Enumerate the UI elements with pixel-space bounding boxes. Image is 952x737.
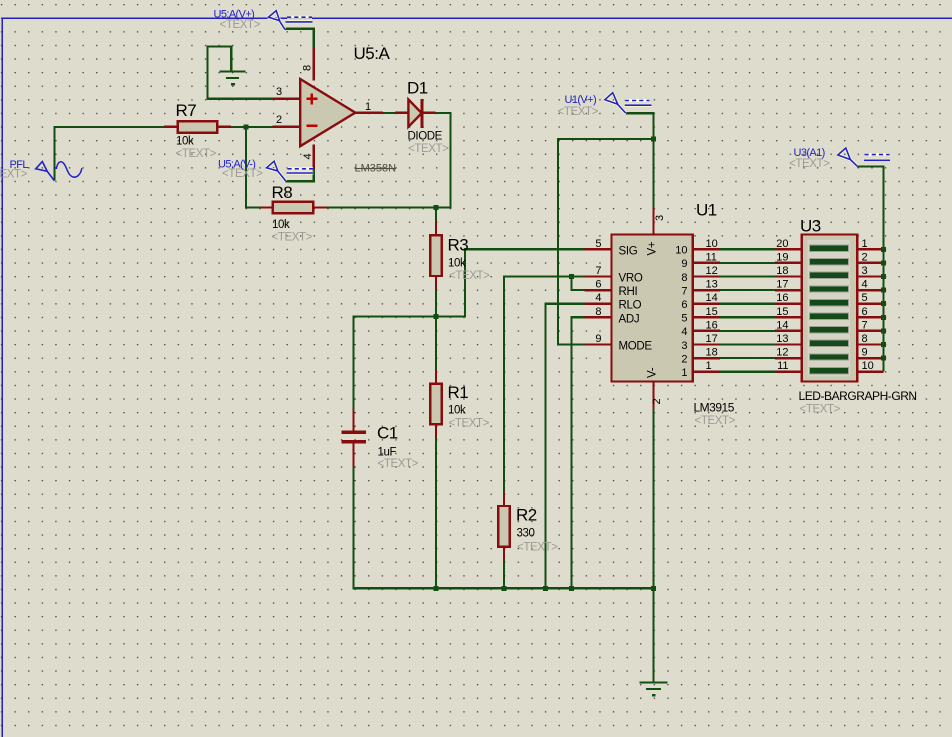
svg-text:<TEXT>: <TEXT>: [378, 458, 419, 470]
wire ground bus bottom: [352, 587, 654, 589]
svg-text:330: 330: [517, 528, 535, 540]
svg-text:10k: 10k: [272, 219, 290, 231]
label C1: [377, 424, 419, 471]
wire op-amp output to D1: [383, 112, 397, 114]
wire U1 pin2 (V-) down to ground: [652, 408, 654, 683]
svg-text:2: 2: [862, 251, 868, 263]
diode D1 triangle: [408, 100, 421, 127]
label U5:A: [354, 44, 397, 175]
wire PFL vertical to R7 row: [55, 126, 165, 181]
svg-text:9: 9: [681, 258, 687, 270]
pin stub U1 pin9 MODE: [584, 343, 612, 345]
wire VRO row to R2 top: [504, 277, 585, 493]
resistor R1: [430, 384, 441, 425]
svg-text:3: 3: [681, 340, 687, 352]
pin stub U1 pin6 RHI: [584, 289, 612, 291]
svg-text:15: 15: [776, 306, 788, 318]
svg-text:4: 4: [681, 326, 687, 338]
svg-text:DIODE: DIODE: [408, 131, 443, 143]
label R7: [176, 101, 217, 160]
junction RLO/ground bus: [543, 586, 548, 591]
svg-text:1uF: 1uF: [378, 447, 397, 459]
resistor R2: [498, 506, 509, 547]
svg-text:<TEXT>: <TEXT>: [408, 143, 449, 155]
wire RLO to ground bus: [546, 304, 585, 589]
svg-text:<TEXT>: <TEXT>: [176, 148, 217, 160]
pin stub R3 bottom: [435, 276, 437, 290]
wire U1 pin14 to U3 pin16 (row 5): [692, 303, 884, 305]
pin stub R1 bottom: [435, 425, 437, 439]
svg-text:1: 1: [365, 101, 371, 113]
input terminal PFL symbol: [36, 162, 82, 181]
wire U1 pin17 to U3 pin13 (row 8): [692, 343, 884, 345]
junction R3/R1/C1/SIG node: [434, 314, 439, 319]
wire U3 common anode bus: [857, 167, 884, 372]
power terminal U5:A(V-) symbol: [267, 161, 314, 181]
net label U5:A(V-): [218, 159, 263, 180]
pin stub C1 top: [352, 409, 354, 432]
svg-text:C1: C1: [377, 424, 398, 443]
svg-text:9: 9: [862, 347, 868, 359]
svg-text:5: 5: [595, 238, 601, 250]
pin stub U1 pin5 SIG: [584, 248, 612, 250]
svg-text:U1(V+): U1(V+): [565, 94, 597, 106]
resistor R3: [430, 235, 441, 276]
junction ground bus / U1 V-: [651, 586, 656, 591]
svg-text:3: 3: [862, 265, 868, 277]
label R2: [516, 506, 558, 554]
wire R8 right to node (436,207.5): [327, 206, 436, 208]
svg-text:8: 8: [302, 65, 314, 71]
U1 to U3 wires: maroon stubs + green middles: [692, 249, 884, 371]
IC U1 body: [612, 235, 693, 382]
svg-text:RLO: RLO: [619, 300, 642, 312]
label R3: [448, 236, 491, 283]
op-amp U5:A triangle: [300, 79, 355, 146]
svg-text:V-: V-: [647, 367, 659, 378]
power terminal U5:A(V+) symbol: [268, 11, 312, 30]
svg-text:2: 2: [651, 398, 663, 404]
junction dots on U3 anode bus: [881, 247, 886, 361]
svg-text:9: 9: [595, 333, 601, 345]
pin stub op-amp pin8: [313, 48, 315, 81]
pin stub R8 right: [313, 206, 327, 208]
svg-text:7: 7: [681, 285, 687, 297]
svg-text:SIG: SIG: [619, 245, 638, 257]
svg-text:U1: U1: [696, 201, 717, 220]
wire node down to R1 top: [435, 316, 437, 371]
pin stub op-amp output pin1: [354, 112, 383, 114]
op-amp plus sign: [306, 93, 317, 125]
svg-text:VRO: VRO: [619, 273, 643, 285]
capacitor C1 plates: [342, 431, 367, 444]
svg-text:<TEXT>: <TEXT>: [222, 168, 263, 180]
svg-text:3: 3: [654, 215, 666, 221]
svg-text:4: 4: [595, 292, 601, 304]
wire ADJ to ground bus: [572, 317, 585, 588]
junction ADJ/ground bus: [569, 586, 574, 591]
svg-text:MODE: MODE: [619, 341, 653, 353]
svg-text:16: 16: [706, 319, 718, 331]
wire D1 cathode to feedback node: [435, 113, 451, 208]
svg-text:4: 4: [302, 153, 314, 159]
svg-text:13: 13: [776, 333, 788, 345]
svg-text:V+: V+: [647, 241, 659, 255]
wire C1 bottom to ground bus: [352, 466, 354, 589]
svg-text:18: 18: [706, 347, 718, 359]
svg-text:4: 4: [862, 279, 868, 291]
pin stub U1 pin4 RLO: [584, 303, 612, 305]
svg-text:10: 10: [706, 238, 718, 250]
wire U1 pin13 to U3 pin17 (row 4): [692, 289, 884, 291]
svg-text:13: 13: [706, 279, 718, 291]
svg-text:7: 7: [862, 319, 868, 331]
sheet border left: [2, 18, 4, 737]
wire R7 right to op-amp pin2: [231, 126, 274, 128]
svg-text:14: 14: [706, 292, 718, 304]
svg-text:11: 11: [706, 251, 717, 263]
svg-text:LED-BARGRAPH-GRN: LED-BARGRAPH-GRN: [799, 389, 917, 403]
svg-text:18: 18: [776, 265, 788, 277]
U1 left pin numbers 5,7,6,4,8,9: [595, 238, 601, 345]
pin stub op-amp pin2: [272, 126, 300, 128]
pin stub R7 left: [164, 126, 178, 128]
svg-text:<TEXT>: <TEXT>: [449, 270, 490, 282]
label R8: [272, 183, 313, 244]
wire R2 bottom to ground bus: [503, 560, 505, 588]
pin stub R3 top: [435, 222, 437, 236]
label R1: [448, 383, 490, 430]
svg-text:<TEXT>: <TEXT>: [695, 415, 736, 427]
junction V+ rail / MODE branch: [651, 137, 656, 142]
bargraph U3 inner panel: [808, 240, 850, 376]
wire op-amp pin4 down to V- rail: [286, 169, 314, 182]
net label U3(A1): [789, 147, 830, 170]
wire node left to C1 top: [354, 317, 438, 410]
junction R7/R8 node: [244, 124, 657, 590]
bargraph U3 body: [802, 235, 857, 382]
svg-text:<TEXT>: <TEXT>: [272, 232, 313, 244]
svg-text:10k: 10k: [448, 258, 466, 270]
svg-text:10: 10: [862, 360, 874, 372]
pin stub U1 pin3 V+ top: [652, 207, 654, 235]
wire U1 pin11 to U3 pin19 (row 2): [692, 262, 884, 264]
wire pin numbers (U3 side) 20,19,18,17,16,15,14,13,12,11: [776, 238, 788, 372]
svg-text:5: 5: [862, 292, 868, 304]
pin stub op-amp pin4: [313, 145, 315, 170]
pin stub C1 bottom: [352, 443, 354, 467]
pin stub op-amp pin3: [272, 98, 300, 100]
wire node to SIG pin of U1: [435, 249, 585, 316]
wire V+ rail branch to MODE pin: [558, 139, 655, 345]
svg-text:6: 6: [595, 279, 601, 291]
svg-text:12: 12: [776, 347, 788, 359]
svg-text:8: 8: [595, 306, 601, 318]
wire node to R3 top: [435, 207, 437, 223]
junction D1/R8/R3 node: [434, 205, 439, 210]
wire R3 bottom to node (436,316.6): [435, 290, 437, 317]
svg-text:16: 16: [776, 292, 788, 304]
svg-text:15: 15: [706, 306, 718, 318]
svg-text:12: 12: [706, 265, 718, 277]
wire U1 pin10 to U3 pin20 (row 1): [692, 248, 884, 250]
diode D1 cathode bar: [420, 99, 423, 128]
wire pin numbers (U1 side) 10,11,12,13,14,15,16,17,18,1: [706, 238, 718, 372]
svg-text:ADJ: ADJ: [619, 313, 640, 325]
power terminal U1(V+) symbol: [605, 93, 652, 113]
svg-text:8: 8: [681, 272, 687, 284]
wire U1 pin16 to U3 pin14 (row 7): [692, 330, 884, 332]
svg-text:<TEXT>: <TEXT>: [789, 158, 830, 170]
svg-text:17: 17: [776, 279, 788, 291]
op-amp minus sign: [306, 125, 317, 127]
power terminal U3(A1) symbol: [838, 148, 890, 166]
pin stub U1 pin7 VRO: [584, 275, 612, 277]
wire node at R7/R8 junction down to R8: [246, 127, 260, 208]
PFL sine wave: [56, 162, 82, 177]
svg-text:R2: R2: [516, 506, 537, 525]
pin stub U1 pin8 ADJ: [584, 316, 612, 318]
net label U5:A(V+): [214, 9, 261, 31]
svg-text:7: 7: [595, 265, 601, 277]
pin stub R8 left: [259, 206, 273, 208]
ground (bottom, main): [640, 683, 668, 696]
pin stub D1 cathode: [423, 112, 436, 114]
terminal label PFL: [0, 159, 28, 181]
svg-text:10k: 10k: [176, 136, 194, 148]
svg-text:5: 5: [681, 313, 687, 325]
svg-text:6: 6: [681, 299, 687, 311]
svg-text:<TEXT>: <TEXT>: [800, 404, 841, 416]
svg-text:20: 20: [776, 238, 788, 250]
wire U1 pin12 to U3 pin18 (row 3): [692, 275, 884, 277]
resistor R8: [273, 202, 314, 213]
bargraph LED segments: [810, 245, 849, 374]
svg-text:<TEXT>: <TEXT>: [449, 418, 490, 430]
svg-text:2: 2: [681, 353, 687, 365]
maroon component pin stubs: [164, 48, 654, 561]
wire U1 pin15 to U3 pin15 (row 6): [692, 316, 884, 318]
svg-text:R7: R7: [176, 101, 197, 120]
svg-text:10k: 10k: [448, 405, 466, 417]
label U3: [799, 217, 917, 416]
svg-text:1: 1: [706, 360, 712, 372]
svg-text:LM3915: LM3915: [694, 401, 735, 415]
svg-text:10: 10: [675, 245, 687, 257]
pin stub R2 top: [503, 492, 505, 506]
resistor R7: [178, 121, 218, 132]
pin stub U1 pin2 V- bottom: [652, 381, 654, 409]
svg-text:U3: U3: [800, 217, 821, 236]
svg-text:R1: R1: [448, 383, 469, 402]
junction R2/ground bus: [502, 586, 507, 591]
pin stub R2 bottom: [503, 547, 505, 561]
pin stub D1 anode: [395, 112, 409, 114]
svg-text:R8: R8: [272, 183, 293, 202]
svg-text:<TEXT>: <TEXT>: [0, 169, 28, 181]
svg-text:2: 2: [276, 114, 282, 126]
wire op-amp pin8 up to V+ rail: [285, 29, 314, 48]
net label U1(V+): [558, 94, 599, 118]
svg-text:<TEXT>: <TEXT>: [220, 19, 261, 31]
wire VRO-RHI link: [572, 277, 585, 291]
svg-text:14: 14: [776, 319, 788, 331]
svg-text:8: 8: [862, 333, 868, 345]
pin stub R1 top: [435, 370, 437, 384]
junction VRO/RHI node: [569, 274, 574, 279]
svg-text:RHI: RHI: [619, 286, 638, 298]
label U1: [694, 201, 736, 428]
svg-text:R3: R3: [448, 236, 469, 255]
svg-text:3: 3: [276, 86, 282, 98]
svg-text:<TEXT>: <TEXT>: [517, 542, 558, 554]
svg-text:1: 1: [862, 238, 868, 250]
svg-text:LM358N: LM358N: [355, 163, 397, 175]
wire U1 pin1 to U3 pin11 (row 10): [692, 371, 883, 373]
U3 right pin numbers 1..10: [862, 238, 874, 372]
svg-text:19: 19: [776, 251, 788, 263]
ground (top, op-amp non-inverting): [220, 72, 246, 85]
U1 right inner pin numbers 10..1: [675, 245, 687, 379]
wire U1(V+) rail down to pin3 of U1: [626, 113, 654, 208]
junction R1/ground bus: [434, 586, 439, 591]
wire R1 bottom to ground bus: [435, 438, 437, 589]
pin stub R7 right: [217, 126, 231, 128]
svg-text:U5:A: U5:A: [354, 44, 391, 63]
svg-text:1: 1: [681, 367, 687, 379]
label D1: [407, 79, 449, 156]
wire U1 pin18 to U3 pin12 (row 9): [692, 357, 884, 359]
svg-text:17: 17: [706, 333, 718, 345]
svg-text:<TEXT>: <TEXT>: [558, 106, 599, 118]
svg-text:11: 11: [777, 360, 788, 372]
wire ground hook from op-amp pin3: [208, 46, 274, 98]
svg-text:D1: D1: [407, 79, 428, 98]
svg-text:6: 6: [862, 306, 868, 318]
